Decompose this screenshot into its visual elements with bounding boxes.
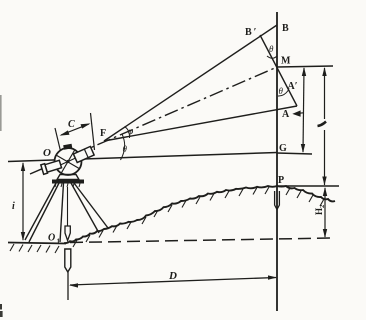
tripod legs [25, 183, 108, 242]
C right extension [91, 113, 95, 150]
svg-text:B ′: B ′ [245, 27, 257, 38]
sight axis dash-dot F-M [30, 67, 277, 174]
corner marks bottom-left [0, 304, 2, 310]
svg-text:O: O [48, 233, 55, 244]
circle internal spokes [56, 155, 80, 169]
ground hatch at O1 [10, 244, 59, 253]
telescope eyepiece side [41, 159, 62, 174]
edge smudge left [0, 95, 2, 131]
C dimension [61, 124, 89, 135]
svg-text:M: M [281, 56, 291, 67]
plumb line [67, 187, 69, 226]
dimension line M-G [303, 68, 304, 152]
theta arc below M [278, 90, 289, 96]
peg at P [275, 191, 280, 210]
svg-text:φ: φ [128, 126, 133, 136]
D left extension below peg [67, 272, 69, 300]
svg-text:i: i [12, 201, 15, 212]
theta arc at O [121, 134, 125, 160]
base plate [52, 180, 84, 184]
main horizontal line O-G [8, 153, 277, 162]
rotated small v label [318, 122, 327, 127]
standards bump on circle top [63, 144, 72, 150]
tribrach neck [57, 175, 79, 180]
plumb bob [65, 226, 70, 241]
svg-text:P: P [278, 175, 284, 186]
ground line at O1 [8, 243, 66, 244]
svg-text:D: D [168, 270, 177, 282]
staff vertical line [276, 12, 278, 311]
svg-text:1: 1 [57, 238, 61, 246]
telescope tube objective side [73, 146, 94, 162]
svg-text:θ: θ [269, 44, 274, 54]
theta arc at M upper [267, 56, 277, 58]
svg-text:O: O [43, 147, 51, 159]
lower stadia ray F-A-A' [104, 106, 297, 141]
phi arc at F [125, 127, 130, 139]
small left arrow near A [294, 111, 304, 116]
l' line B'-M-A' [260, 35, 297, 106]
svg-text:C: C [68, 119, 75, 130]
svg-text:G: G [279, 143, 287, 154]
dimension line M-P (v) [324, 68, 326, 119]
svg-text:F: F [100, 128, 106, 139]
svg-text:A′: A′ [288, 81, 298, 92]
svg-text:B: B [282, 23, 289, 34]
C left extension [55, 128, 61, 151]
dashed datum line [70, 238, 333, 243]
P level line [277, 185, 339, 187]
D dimension line [70, 278, 276, 286]
peg at O1 [65, 249, 71, 272]
terrain hatch ticks [73, 187, 324, 247]
svg-text:A: A [282, 109, 290, 120]
G extension line [277, 153, 312, 154]
terrain profile [64, 186, 335, 243]
i dimension line [22, 163, 24, 240]
upper stadia ray F-B [104, 25, 277, 141]
svg-text:θ: θ [123, 144, 128, 154]
svg-text:θ: θ [279, 86, 284, 96]
dimension line P-datum (h) [324, 188, 326, 237]
theodolite circle [55, 148, 82, 175]
M-level dimension reference line [277, 66, 333, 67]
